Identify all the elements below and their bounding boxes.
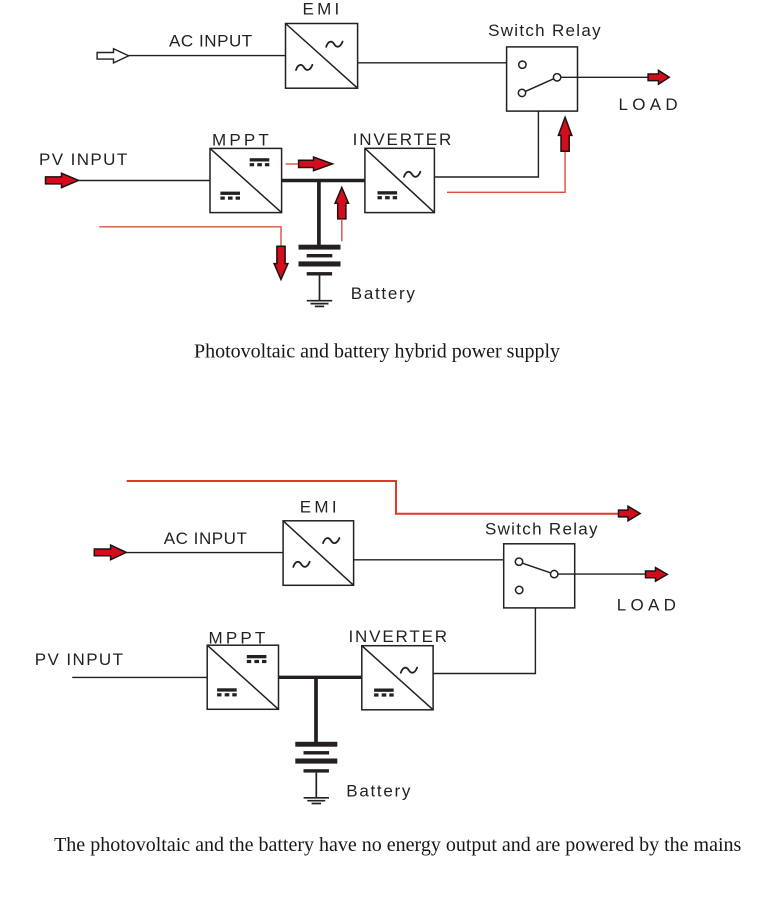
wire relay to load [561, 76, 648, 78]
red arrow battery to bus [335, 187, 348, 241]
svg-text:LOAD: LOAD [619, 95, 683, 114]
svg-text:AC INPUT: AC INPUT [164, 529, 248, 548]
svg-text:MPPT: MPPT [212, 131, 272, 150]
wire relay to inverter bottom [433, 608, 535, 674]
svg-text:PV INPUT: PV INPUT [35, 650, 125, 669]
wire PV to MPPT bottom [72, 676, 207, 678]
AC input arrow red bottom [94, 545, 126, 560]
EMI block U1 [286, 24, 358, 89]
svg-text:Photovoltaic and battery hybri: Photovoltaic and battery hybrid power su… [194, 340, 560, 362]
DC bus MPPT to inverter bottom [279, 676, 362, 679]
svg-text:EMI: EMI [300, 498, 340, 517]
svg-text:Battery: Battery [346, 781, 412, 800]
svg-text:The photovoltaic and the batte: The photovoltaic and the battery have no… [54, 834, 741, 856]
svg-text:AC INPUT: AC INPUT [169, 31, 253, 50]
load arrow red bottom [646, 568, 668, 582]
red wire inverter to relay arrow [447, 151, 565, 192]
battery bus junction wire [317, 181, 321, 246]
svg-text:PV INPUT: PV INPUT [39, 150, 129, 169]
red arrow MPPT output [286, 157, 333, 171]
red wire battery discharge path [99, 227, 281, 247]
switch relay block K2 [504, 544, 575, 608]
svg-text:EMI: EMI [302, 0, 342, 19]
wire AC input to EMI [129, 55, 286, 57]
wire PV to MPPT [79, 180, 211, 182]
MPPT block U2 [210, 148, 282, 212]
wire EMI to relay bottom [354, 559, 504, 561]
switch relay block K1 [507, 47, 578, 111]
wire inverter to relay [434, 111, 538, 177]
svg-text:INVERTER: INVERTER [348, 627, 448, 646]
battery BT2 [295, 742, 337, 804]
red arrow into relay bottom [558, 117, 571, 151]
red bypass wire [127, 481, 619, 514]
red arrow battery discharge down [274, 246, 288, 279]
PV input arrow red [46, 173, 79, 187]
svg-text:Switch Relay: Switch Relay [485, 520, 599, 539]
battery junction wire bottom [314, 677, 318, 742]
EMI block U4 [283, 521, 354, 586]
svg-text:Switch Relay: Switch Relay [488, 21, 602, 40]
svg-text:INVERTER: INVERTER [353, 130, 453, 149]
AC input open arrow [97, 49, 129, 63]
red bypass arrow [619, 506, 641, 521]
wire EMI to relay [358, 62, 507, 64]
load arrow red [648, 70, 669, 84]
svg-text:LOAD: LOAD [617, 595, 681, 614]
DC bus MPPT to inverter [282, 179, 365, 182]
MPPT block U5 [207, 645, 278, 709]
svg-text:Battery: Battery [351, 284, 417, 303]
INVERTER block U3 [365, 148, 435, 212]
battery BT1 [299, 245, 341, 307]
wire AC to EMI bottom [126, 552, 283, 554]
INVERTER block U6 [362, 646, 433, 710]
wire relay to load bottom [558, 573, 646, 575]
